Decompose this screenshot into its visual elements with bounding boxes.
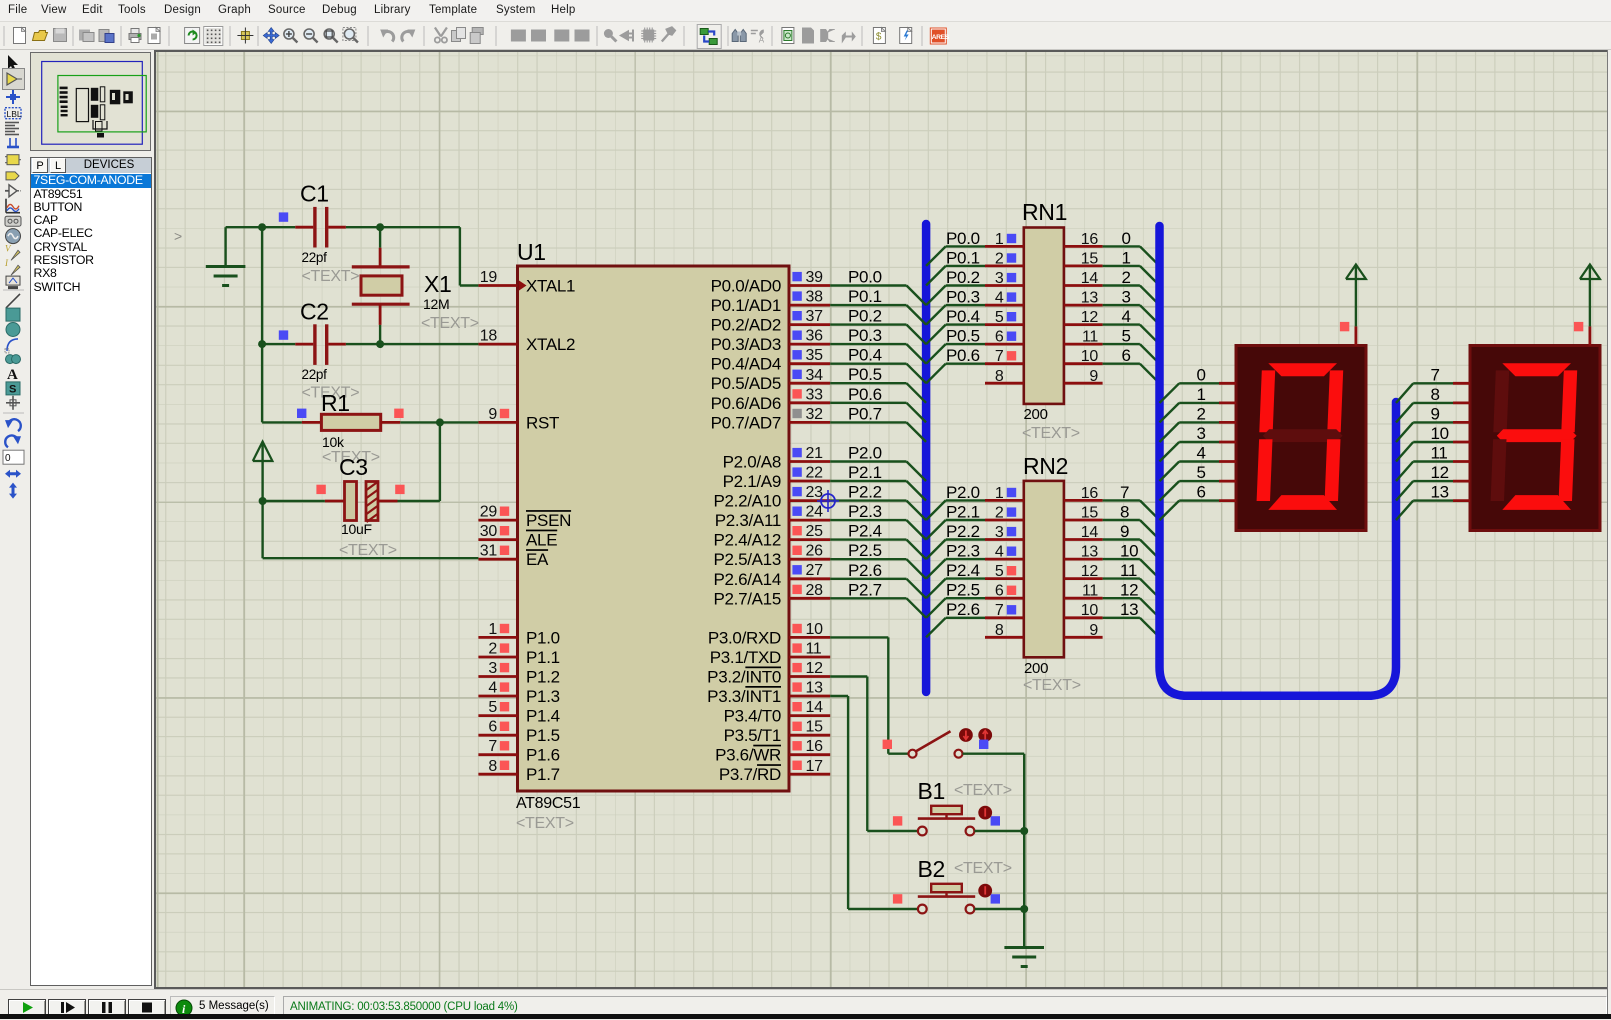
svg-text:1: 1 xyxy=(1122,248,1131,267)
svg-text:15: 15 xyxy=(806,719,824,736)
svg-text:P0.5: P0.5 xyxy=(946,327,980,346)
svg-text:7: 7 xyxy=(488,738,497,755)
svg-text:1: 1 xyxy=(995,231,1004,248)
svg-text:>: > xyxy=(174,228,182,244)
svg-text:24: 24 xyxy=(806,504,824,521)
svg-text:7: 7 xyxy=(1120,483,1129,502)
svg-text:12: 12 xyxy=(1120,581,1138,600)
svg-text:U1: U1 xyxy=(517,239,546,265)
svg-text:11: 11 xyxy=(1431,444,1448,463)
svg-text:1: 1 xyxy=(1197,385,1206,404)
svg-text:14: 14 xyxy=(806,699,824,716)
svg-text:22pf: 22pf xyxy=(302,367,328,382)
svg-text:13: 13 xyxy=(1431,483,1449,502)
svg-text:32: 32 xyxy=(806,406,824,423)
svg-text:3: 3 xyxy=(995,524,1004,541)
svg-text:10k: 10k xyxy=(322,434,345,450)
svg-text:P0.2/AD2: P0.2/AD2 xyxy=(711,316,781,335)
svg-text:<TEXT>: <TEXT> xyxy=(954,860,1012,877)
svg-text:P3.1/TXD: P3.1/TXD xyxy=(710,648,781,667)
svg-text:<TEXT>: <TEXT> xyxy=(339,542,397,559)
svg-text:9: 9 xyxy=(1089,622,1098,639)
svg-text:0: 0 xyxy=(1197,365,1206,384)
svg-text:2: 2 xyxy=(488,641,497,658)
svg-text:P1.1: P1.1 xyxy=(526,648,560,667)
svg-text:22: 22 xyxy=(806,465,824,482)
svg-text:1: 1 xyxy=(995,485,1004,502)
svg-text:28: 28 xyxy=(806,582,824,599)
svg-text:P0.1: P0.1 xyxy=(946,248,980,267)
svg-text:38: 38 xyxy=(806,289,824,306)
svg-text:12M: 12M xyxy=(423,296,449,312)
svg-text:<TEXT>: <TEXT> xyxy=(421,315,479,332)
svg-text:C1: C1 xyxy=(300,181,329,207)
svg-text:0: 0 xyxy=(5,453,11,464)
svg-text:P3.4/T0: P3.4/T0 xyxy=(724,707,781,726)
svg-text:RN2: RN2 xyxy=(1023,453,1068,479)
svg-text:P2.5: P2.5 xyxy=(946,581,980,600)
svg-text:P2.2: P2.2 xyxy=(848,483,882,502)
svg-text:P0.4/AD4: P0.4/AD4 xyxy=(711,355,781,374)
svg-text:P0.0: P0.0 xyxy=(848,268,882,287)
svg-text:P0.3: P0.3 xyxy=(848,326,882,345)
svg-text:33: 33 xyxy=(806,386,824,403)
svg-text:P0.0/AD0: P0.0/AD0 xyxy=(711,277,781,296)
svg-text:7: 7 xyxy=(995,348,1004,365)
svg-text:P2.0: P2.0 xyxy=(848,444,882,463)
svg-text:14: 14 xyxy=(1081,524,1099,541)
svg-text:P1.3: P1.3 xyxy=(526,687,560,706)
svg-text:V: V xyxy=(5,243,12,253)
svg-text:18: 18 xyxy=(480,328,498,345)
svg-text:3: 3 xyxy=(1197,424,1206,443)
svg-text:5: 5 xyxy=(995,563,1004,580)
svg-text:10: 10 xyxy=(1120,542,1138,561)
svg-text:23: 23 xyxy=(806,484,824,501)
svg-text:10: 10 xyxy=(1081,602,1099,619)
svg-text:2: 2 xyxy=(995,505,1004,522)
svg-text:4: 4 xyxy=(995,290,1004,307)
svg-text:X1: X1 xyxy=(424,271,452,297)
svg-text:8: 8 xyxy=(995,368,1004,385)
svg-text:P0.1: P0.1 xyxy=(848,287,882,306)
svg-text:P2.1: P2.1 xyxy=(848,463,882,482)
svg-text:AT89C51: AT89C51 xyxy=(516,795,581,812)
svg-text:B2: B2 xyxy=(918,856,946,882)
svg-text:P2.4: P2.4 xyxy=(946,561,980,580)
svg-text:34: 34 xyxy=(806,367,824,384)
svg-text:P1.4: P1.4 xyxy=(526,707,560,726)
svg-text:21: 21 xyxy=(806,445,824,462)
svg-text:13: 13 xyxy=(1081,290,1099,307)
svg-text:PSEN: PSEN xyxy=(526,511,571,530)
svg-text:P2.6: P2.6 xyxy=(946,600,980,619)
svg-text:P2.1: P2.1 xyxy=(946,503,980,522)
svg-text:P0.7: P0.7 xyxy=(848,404,882,423)
svg-text:12: 12 xyxy=(1081,563,1099,580)
svg-text:<TEXT>: <TEXT> xyxy=(954,782,1012,799)
svg-text:6: 6 xyxy=(995,329,1004,346)
svg-text:37: 37 xyxy=(806,308,824,325)
svg-text:A: A xyxy=(759,36,765,45)
svg-text:3: 3 xyxy=(488,660,497,677)
svg-text:6: 6 xyxy=(1122,346,1131,365)
svg-text:13: 13 xyxy=(1120,600,1138,619)
svg-text:4: 4 xyxy=(1122,307,1131,326)
svg-text:P1.7: P1.7 xyxy=(526,765,560,784)
svg-text:ALE: ALE xyxy=(526,531,557,550)
svg-text:P0.6: P0.6 xyxy=(848,385,882,404)
svg-text:6: 6 xyxy=(488,719,497,736)
svg-text:P2.3: P2.3 xyxy=(946,542,980,561)
svg-text:P0.3/AD3: P0.3/AD3 xyxy=(711,335,781,354)
svg-text:P1.0: P1.0 xyxy=(526,628,560,647)
svg-text:P3.7/RD: P3.7/RD xyxy=(719,765,781,784)
svg-text:16: 16 xyxy=(1081,485,1099,502)
svg-text:A: A xyxy=(7,367,18,383)
svg-text:30: 30 xyxy=(480,523,498,540)
svg-text:31: 31 xyxy=(480,543,498,560)
svg-text:8: 8 xyxy=(995,622,1004,639)
svg-text:P2.2: P2.2 xyxy=(946,522,980,541)
svg-text:RN1: RN1 xyxy=(1022,199,1067,225)
svg-text:10uF: 10uF xyxy=(341,521,372,537)
svg-text:P2.3/A11: P2.3/A11 xyxy=(715,511,781,530)
svg-text:12: 12 xyxy=(1081,309,1099,326)
svg-text:P2.4: P2.4 xyxy=(848,522,882,541)
svg-text:7: 7 xyxy=(1431,365,1440,384)
svg-text:3: 3 xyxy=(995,270,1004,287)
svg-text:RST: RST xyxy=(526,413,559,432)
svg-text:9: 9 xyxy=(1120,522,1129,541)
svg-text:5: 5 xyxy=(995,309,1004,326)
svg-text:7: 7 xyxy=(995,602,1004,619)
svg-text:11: 11 xyxy=(1120,561,1137,580)
svg-text:P1.2: P1.2 xyxy=(526,668,560,687)
svg-text:13: 13 xyxy=(806,680,824,697)
svg-text:C2: C2 xyxy=(300,299,329,325)
svg-text:R1: R1 xyxy=(321,390,350,416)
svg-text:26: 26 xyxy=(806,543,824,560)
svg-text:6: 6 xyxy=(995,583,1004,600)
svg-text:P2.1/A9: P2.1/A9 xyxy=(723,472,781,491)
svg-text:13: 13 xyxy=(1081,544,1099,561)
svg-text:P2.4/A12: P2.4/A12 xyxy=(713,531,781,550)
svg-text:4: 4 xyxy=(1197,444,1206,463)
svg-text:P3.5/T1: P3.5/T1 xyxy=(724,726,781,745)
svg-text:I: I xyxy=(4,258,9,268)
svg-text:25: 25 xyxy=(806,523,824,540)
svg-text:22pf: 22pf xyxy=(302,250,328,265)
svg-text:39: 39 xyxy=(806,269,824,286)
svg-text:15: 15 xyxy=(1081,250,1099,267)
svg-text:P1.5: P1.5 xyxy=(526,726,560,745)
svg-text:P2.7/A15: P2.7/A15 xyxy=(713,589,781,608)
svg-text:16: 16 xyxy=(1081,231,1099,248)
svg-text:P0.0: P0.0 xyxy=(946,229,980,248)
svg-text:P0.5: P0.5 xyxy=(848,365,882,384)
svg-text:11: 11 xyxy=(1082,329,1098,346)
svg-text:P1.6: P1.6 xyxy=(526,746,560,765)
svg-text:P2.3: P2.3 xyxy=(848,502,882,521)
svg-text:3: 3 xyxy=(1122,288,1131,307)
svg-text:5: 5 xyxy=(488,699,497,716)
svg-text:S: S xyxy=(9,383,16,395)
svg-text:19: 19 xyxy=(480,269,498,286)
svg-text:P2.0/A8: P2.0/A8 xyxy=(723,453,781,472)
svg-text:14: 14 xyxy=(1081,270,1099,287)
svg-text:P2.7: P2.7 xyxy=(848,580,882,599)
svg-text:27: 27 xyxy=(806,562,824,579)
svg-text:$: $ xyxy=(876,32,882,43)
svg-text:EA: EA xyxy=(526,550,549,569)
svg-text:P2.6: P2.6 xyxy=(848,561,882,580)
svg-text:P0.4: P0.4 xyxy=(946,307,980,326)
svg-text:5: 5 xyxy=(1122,327,1131,346)
svg-text:P2.5: P2.5 xyxy=(848,541,882,560)
svg-text:1: 1 xyxy=(488,621,497,638)
svg-text:4: 4 xyxy=(995,544,1004,561)
svg-text:6: 6 xyxy=(1197,483,1206,502)
svg-text:<TEXT>: <TEXT> xyxy=(1023,677,1081,694)
svg-text:10: 10 xyxy=(1081,348,1099,365)
svg-text:<TEXT>: <TEXT> xyxy=(516,815,574,832)
svg-text:8: 8 xyxy=(488,758,497,775)
svg-text:200: 200 xyxy=(1024,660,1048,677)
svg-text:P0.2: P0.2 xyxy=(848,307,882,326)
svg-text:P0.6: P0.6 xyxy=(946,346,980,365)
svg-text:B1: B1 xyxy=(918,778,946,804)
svg-text:10: 10 xyxy=(806,621,824,638)
svg-text:8: 8 xyxy=(1431,385,1440,404)
svg-text:<TEXT>: <TEXT> xyxy=(302,268,360,285)
svg-text:15: 15 xyxy=(1081,505,1099,522)
svg-text:12: 12 xyxy=(806,660,824,677)
svg-text:2: 2 xyxy=(1122,268,1131,287)
svg-text:4: 4 xyxy=(488,680,497,697)
svg-text:2: 2 xyxy=(995,250,1004,267)
svg-text:17: 17 xyxy=(806,758,824,775)
svg-text:P3.3/INT1: P3.3/INT1 xyxy=(707,687,781,706)
svg-text:11: 11 xyxy=(806,641,822,658)
svg-text:P2.6/A14: P2.6/A14 xyxy=(713,570,781,589)
svg-text:P0.1/AD1: P0.1/AD1 xyxy=(711,296,781,315)
svg-text:XTAL1: XTAL1 xyxy=(526,277,575,296)
svg-text:P0.2: P0.2 xyxy=(946,268,980,287)
svg-text:P0.6/AD6: P0.6/AD6 xyxy=(711,394,781,413)
svg-text:10: 10 xyxy=(1431,424,1449,443)
svg-text:P0.7/AD7: P0.7/AD7 xyxy=(711,413,781,432)
svg-text:P0.4: P0.4 xyxy=(848,346,882,365)
svg-text:P2.0: P2.0 xyxy=(946,483,980,502)
svg-text:P0.5/AD5: P0.5/AD5 xyxy=(711,374,781,393)
svg-text:P3.0/RXD: P3.0/RXD xyxy=(708,628,781,647)
svg-text:P3.2/INT0: P3.2/INT0 xyxy=(707,668,781,687)
svg-text:P2.2/A10: P2.2/A10 xyxy=(713,492,781,511)
svg-text:2: 2 xyxy=(1197,404,1206,423)
svg-text:35: 35 xyxy=(806,347,824,364)
svg-text:P0.3: P0.3 xyxy=(946,288,980,307)
svg-text:9: 9 xyxy=(1089,368,1098,385)
svg-text:11: 11 xyxy=(1082,583,1098,600)
svg-text:9: 9 xyxy=(1431,404,1440,423)
svg-text:P2.5/A13: P2.5/A13 xyxy=(713,550,781,569)
svg-text:P3.6/WR: P3.6/WR xyxy=(715,746,781,765)
svg-text:5: 5 xyxy=(1197,463,1206,482)
svg-text:16: 16 xyxy=(806,738,824,755)
svg-text:C3: C3 xyxy=(339,454,368,480)
svg-text:LBL: LBL xyxy=(7,109,22,119)
svg-text:0: 0 xyxy=(1122,229,1131,248)
svg-text:9: 9 xyxy=(488,406,497,423)
svg-text:XTAL2: XTAL2 xyxy=(526,335,575,354)
svg-text:200: 200 xyxy=(1024,406,1048,423)
svg-text:8: 8 xyxy=(1120,503,1129,522)
svg-text:36: 36 xyxy=(806,328,824,345)
svg-text:29: 29 xyxy=(480,504,498,521)
svg-text:ARES: ARES xyxy=(932,34,950,41)
svg-text:12: 12 xyxy=(1431,463,1449,482)
svg-text:<TEXT>: <TEXT> xyxy=(1022,425,1080,442)
